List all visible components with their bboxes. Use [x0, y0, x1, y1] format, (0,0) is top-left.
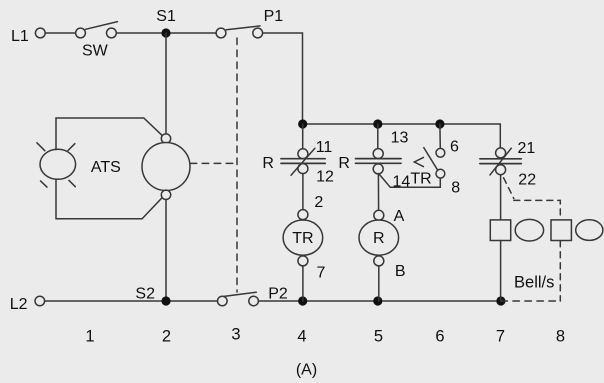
node 4 bottom [298, 296, 307, 305]
wire contact to coil TR [302, 174, 304, 210]
svg-text:R: R [262, 155, 274, 172]
node 7 bottom [496, 296, 505, 305]
node 4 top [298, 119, 307, 128]
wire motor to S2 [165, 200, 167, 302]
contact R 21-22 [480, 148, 521, 175]
lamp rays [37, 143, 45, 151]
contact TR 6-8 [414, 148, 445, 179]
dashed wire 22 to bell 2 [504, 178, 561, 301]
wire lamp top loop to motor [56, 118, 162, 150]
contact R 13-14 [356, 149, 402, 174]
svg-text:2: 2 [162, 328, 171, 346]
svg-text:14: 14 [393, 174, 411, 191]
wire node 14 branch to contact 8 [379, 174, 441, 188]
svg-text:S1: S1 [156, 8, 176, 25]
wire contact 22 to bell 1 [500, 175, 502, 220]
svg-text:B: B [395, 263, 406, 280]
wire top bus [303, 123, 501, 125]
svg-text:6: 6 [435, 328, 444, 346]
wire column 4 upper [302, 124, 304, 149]
wire L1 to SW [45, 32, 75, 34]
dashed wire bottom right [501, 300, 560, 302]
svg-text:12: 12 [316, 169, 334, 186]
dashed link line P1/P2 [236, 38, 238, 292]
wire bell 1 to bottom node [500, 241, 502, 302]
wire SW to P1 [116, 32, 216, 34]
motor ATS terminal top [161, 134, 170, 143]
svg-text:5: 5 [374, 328, 383, 346]
svg-text:A: A [394, 208, 405, 225]
wire P2 to bell node [258, 300, 501, 302]
wire S1 down to ATS motor [165, 33, 167, 134]
svg-text:6: 6 [450, 139, 459, 156]
wire coil R to bottom [378, 266, 380, 301]
svg-text:Bell/s: Bell/s [514, 274, 554, 292]
svg-text:21: 21 [518, 140, 536, 157]
node L2 terminal [35, 296, 45, 306]
svg-text:(A): (A) [296, 362, 317, 379]
svg-text:11: 11 [316, 139, 333, 156]
switch P2 [218, 296, 228, 306]
svg-text:S2: S2 [135, 286, 155, 303]
dashed link ATS to link line [190, 162, 237, 164]
motor ATS terminal bottom [161, 190, 170, 199]
svg-text:2: 2 [314, 194, 323, 211]
coil R body [359, 220, 399, 255]
svg-text:TR: TR [292, 230, 313, 247]
svg-text:TR: TR [410, 170, 431, 187]
wire P1 to column 4 corner [263, 33, 303, 124]
bell 2 gong [576, 220, 603, 241]
coil R terminal B [374, 256, 384, 266]
node L1 terminal [35, 28, 45, 38]
svg-text:L1: L1 [11, 28, 29, 45]
wire L2 to P2 [45, 300, 218, 302]
node S1 [161, 28, 170, 37]
svg-text:R: R [338, 155, 350, 172]
lamp ATS [40, 149, 76, 179]
svg-text:8: 8 [556, 328, 565, 346]
svg-text:7: 7 [316, 264, 325, 281]
bell 1 gong [515, 219, 543, 241]
wire column 6 upper [439, 124, 441, 148]
svg-text:13: 13 [391, 130, 409, 147]
node 6 top [435, 119, 444, 128]
svg-text:P2: P2 [268, 286, 288, 303]
bell 1 striker [490, 220, 510, 241]
bell 2 striker [551, 220, 571, 241]
coil TR terminal 7 [298, 256, 308, 266]
svg-text:SW: SW [82, 43, 109, 60]
svg-text:L2: L2 [10, 296, 28, 313]
coil R terminal A [374, 210, 384, 220]
svg-text:1: 1 [85, 328, 94, 346]
svg-text:3: 3 [231, 326, 240, 344]
svg-text:7: 7 [496, 328, 505, 346]
wire lamp bottom loop to motor [56, 179, 162, 219]
switch SW [76, 28, 86, 38]
contact R 11-12 [281, 148, 325, 175]
node S2 [161, 296, 170, 305]
svg-text:R: R [373, 230, 385, 247]
coil TR body [283, 220, 323, 255]
svg-text:8: 8 [451, 180, 460, 197]
wire contact to coil R [377, 174, 379, 211]
node 5 bottom [373, 296, 382, 305]
coil TR terminal 2 [298, 210, 308, 220]
wire column 5 upper [377, 124, 379, 149]
motor ATS body [142, 143, 190, 191]
wire top bus corner to column 7 [499, 124, 501, 148]
svg-text:22: 22 [518, 172, 536, 189]
wire coil TR to bottom [302, 266, 304, 301]
svg-text:P1: P1 [264, 8, 284, 25]
switch P1 [216, 28, 226, 38]
svg-text:4: 4 [297, 328, 306, 346]
node 5 top [373, 119, 382, 128]
svg-text:ATS: ATS [91, 159, 121, 176]
